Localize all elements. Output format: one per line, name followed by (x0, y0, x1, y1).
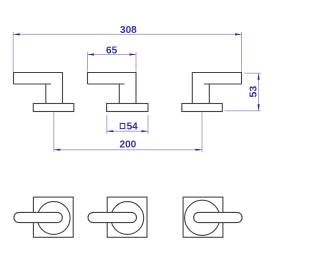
dim 54 arrow right (142, 130, 149, 132)
front view V2 (88, 197, 147, 237)
dimension square-54 (107, 115, 148, 134)
handle H1 lever (side view, left) (14, 73, 63, 104)
dim 53 extension line bottom (225, 110, 261, 112)
V2 circle flange (111, 202, 144, 235)
dim 200 extension line right (201, 112, 203, 152)
handle H2 lever (side view, middle) (88, 73, 137, 104)
dim 65 line (88, 54, 137, 56)
dimension 200 (54, 112, 202, 152)
dim 200 arrow left (54, 149, 61, 151)
handle H3 base (182, 104, 223, 112)
dim 308 arrow left (13, 33, 20, 35)
dimension 65 (88, 46, 137, 72)
svg-text:308: 308 (120, 25, 137, 36)
dim 200 arrow right (196, 149, 203, 151)
svg-text:65: 65 (106, 46, 118, 57)
dim 53 line (258, 73, 260, 111)
dimension 308 (13, 25, 241, 72)
handle H2 stem (118, 84, 120, 104)
svg-text:53: 53 (248, 86, 260, 98)
dim 65 extension line right (135, 52, 137, 72)
dim 308 extension line left (12, 32, 14, 72)
dimension 53 (vertical) (225, 73, 261, 111)
dim 308 arrow right (235, 33, 242, 35)
V1 circle flange (37, 202, 70, 235)
handle H1 base (33, 104, 74, 112)
V1 square escutcheon (33, 197, 73, 237)
V3 lever handle (194, 212, 243, 222)
dim 308 extension line right (241, 32, 243, 72)
handle H3 lever (side view, right, mirrored) (192, 73, 241, 104)
front view V1 (14, 197, 73, 237)
dim 54 line (107, 130, 148, 132)
V2 lever handle (88, 212, 137, 222)
dim 65 arrow right (130, 53, 137, 55)
dim 53 extension line top (244, 72, 261, 74)
handle H3 stem (208, 84, 210, 104)
V1 lever handle (14, 212, 63, 222)
dim 54 square symbol (120, 123, 125, 128)
handle H1 lever bottom edge (14, 83, 52, 85)
V2 square escutcheon (107, 197, 147, 237)
handle H2 lever bottom edge (88, 83, 125, 85)
dim 308 line (13, 33, 241, 35)
V3 square escutcheon (183, 197, 223, 237)
dim 54 extension line right (147, 115, 149, 134)
dim 53 arrow bottom (258, 104, 260, 111)
svg-text:54: 54 (127, 122, 139, 133)
V3 circle flange (185, 200, 220, 235)
dim 200 extension line left (53, 112, 55, 152)
handle H1 stem (45, 84, 47, 104)
dim 53 arrow top (258, 73, 260, 80)
handle H3 lever bottom edge (204, 83, 242, 85)
svg-text:200: 200 (120, 140, 137, 151)
handle H2 base (107, 104, 148, 112)
dim 65 extension line left (87, 52, 89, 72)
dim 54 arrow left (107, 130, 114, 132)
dim 65 arrow left (88, 53, 95, 55)
front view V3 (183, 197, 242, 237)
dim 200 line (54, 149, 202, 151)
dim 54 extension line left (106, 115, 108, 134)
